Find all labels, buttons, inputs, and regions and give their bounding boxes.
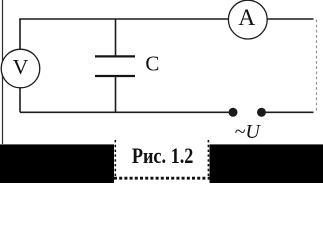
svg-text:V: V <box>13 55 29 79</box>
svg-text:~U: ~U <box>235 121 262 143</box>
svg-text:A: A <box>238 5 255 31</box>
svg-text:Рис. 1.2: Рис. 1.2 <box>132 143 194 168</box>
svg-text:C: C <box>145 52 159 76</box>
